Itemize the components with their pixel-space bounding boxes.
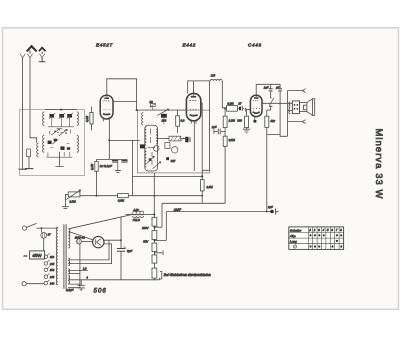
svg-text:Minerva 33 W: Minerva 33 W [374,128,385,199]
potentiometer 0,5M volume [66,190,80,203]
power transformer primary bumps [56,227,58,285]
divider chain spine [153,214,155,279]
tube V3 mid marks [253,108,260,109]
svg-text:6T: 6T [48,233,51,237]
resistor 0,3M vertical [176,110,180,133]
svg-text:0,3M: 0,3M [227,102,234,106]
IF pre coil bumps upper [142,113,144,125]
rectifier filament winding bumps [68,258,69,266]
speaker cone flange [313,99,315,116]
capacitor 8uF electrolytic [117,246,132,253]
tube V2 cathode bar [190,114,198,117]
wire into tube V3 grid [246,109,250,111]
tube V3 grid dashes [253,100,259,102]
filament winding bumps 3 [68,275,69,280]
wire tube V2 bottom lead [193,121,195,171]
filament winding bumps 2 [68,269,69,274]
mains terminal bottom [22,282,26,286]
padder capacitor black mark 1 [48,141,52,144]
svg-text:0,5µF: 0,5µF [66,288,74,292]
table header letters [309,228,342,232]
mains switch blade [27,223,37,227]
switch arrow tone [269,91,274,106]
resistor 0,3M horizontal [227,102,238,112]
svg-text:Lang: Lang [290,240,297,244]
output transformer bumps [289,102,290,114]
node on volume line [96,195,98,197]
tube V3 bottom pin [254,117,256,120]
antenna terminal 2 [27,51,32,59]
svg-text:AMF: AMF [173,208,182,212]
capacitor diode black [185,137,188,143]
trimmer capacitor T2 [59,113,65,127]
svg-text:27: 27 [237,102,242,106]
svg-text:0,5M: 0,5M [70,199,77,203]
oscillator switch contact circle a [153,146,159,152]
rf choke bumps 105 [210,79,222,81]
tube V1 E452T envelope [100,95,113,119]
svg-text:FELD: FELD [133,218,140,222]
trimmer 50 above grid line [150,103,156,110]
rectifier filament loop wires [68,240,111,263]
tube V1 bottom pins [103,117,109,121]
svg-text:0,5M: 0,5M [118,199,125,203]
svg-text:220: 220 [161,118,167,122]
node 100V [154,226,156,228]
wire field coil to chain [144,213,155,215]
speaker top terminal line with fork [288,89,306,93]
mains terminal top [23,226,27,230]
IF1 primary coil bumps [145,127,147,146]
svg-text:220: 220 [49,275,55,279]
svg-text:0,5M: 0,5M [207,185,214,189]
svg-text:687: 687 [171,159,176,163]
wire bus L2 y177.7 [133,175,203,177]
switch arrow on grid line [157,109,169,115]
svg-text:200: 200 [236,119,242,123]
transformer core lines [64,224,66,289]
speaker chassis vertical [287,91,289,137]
rectifier tube circle [93,236,104,247]
svg-text:0,3: 0,3 [181,119,185,123]
wire screen feed vertical [202,81,209,170]
capacitor 687 black dot [166,157,169,160]
capacitor 220 black [161,114,167,125]
svg-text:1µF: 1µF [212,125,217,129]
svg-text:8µF: 8µF [127,249,132,253]
tube V1 cathode bar [103,113,110,116]
table row label symbol [293,245,296,248]
node dots inside tuner [54,130,56,132]
resistor 1,5M [223,109,235,132]
svg-text:2µF: 2µF [267,205,273,209]
wire junction to IF block [109,139,140,141]
wire tube V3 top cap riser [256,84,280,97]
svg-text:45W: 45W [32,253,42,258]
dial lamp [76,239,81,244]
wire AMF bus [166,211,271,213]
svg-text:40k: 40k [270,119,275,123]
tube V1 grid dashes [103,100,109,102]
resistor 0,5M detector load [200,180,213,204]
resistor chain R4 [152,255,157,263]
IF1 inner texture [148,129,156,166]
earth terminal fork [40,52,45,59]
resistor chain R1 [152,217,157,226]
tube V3 cathode cap black [254,120,257,123]
tube V3 cathode arc [253,112,260,114]
tube V2 E442 envelope [186,93,200,120]
svg-text:2x 0,1µF: 2x 0,1µF [99,164,113,168]
wire drop to volume line [132,140,134,195]
switch table grid [289,227,344,250]
svg-text:E452T: E452T [96,43,114,48]
voltage tap 150 [44,266,55,272]
svg-text:125: 125 [50,262,55,266]
antenna arrow symbol [26,45,37,52]
capacitor 2uF left drop [263,84,273,91]
svg-text:E442: E442 [183,43,197,48]
wire 8uF down to heater bus [120,251,122,279]
earth arrow symbol [39,47,46,52]
band switch arrow S1b [59,129,68,136]
oscillator padder rect [165,143,170,149]
tube V1 mid dots [104,109,111,111]
resistor 40k [265,116,276,127]
IF transformer 1 can [145,125,158,171]
wire tuner top rail [45,109,77,111]
tuner inner texture marks [46,129,72,157]
wire antenna lead 1 [22,58,24,169]
wire pot to ground [62,194,69,208]
filament stub 1,2 [68,268,87,271]
voltage tap 110 [44,253,54,259]
voltage tap 125 [44,260,55,266]
node at 1,5M top [224,108,226,110]
heater bus wire [68,278,159,280]
coupling capacitor 27 black [237,102,244,111]
filament winding bumps 4 [68,281,69,284]
shield box of tuner [20,110,85,176]
capacitor in antenna branch [27,149,31,157]
speaker cone [307,99,313,115]
trimmer black on IF1 [140,144,145,148]
tube V2 mid dashes [190,108,197,110]
svg-text:Bei Gleichstrom durchverbinden: Bei Gleichstrom durchverbinden [164,273,211,277]
wire stubs into transformer [288,103,293,110]
HT secondary bumps [68,229,70,248]
speaker magnet block [300,103,307,112]
resistor 200 [236,110,248,128]
wire tube V3 anode lead [262,102,288,104]
svg-text:100V: 100V [142,226,150,230]
tube V2 bottom pins [191,121,196,124]
wire lamp down lead [68,244,80,288]
resistor chain R3 [152,243,157,252]
filament stub 4 [68,274,88,280]
node tuner top [60,109,62,111]
svg-text:150: 150 [50,268,55,272]
transformer winding dots [294,104,299,110]
svg-text:1,2: 1,2 [83,268,87,271]
wire switch to 40k [267,106,271,116]
svg-text:105: 105 [211,74,216,78]
wire antenna lead 2 [30,58,37,143]
oscillator switch arrow b [153,162,161,169]
svg-text:0,1M: 0,1M [90,163,94,170]
wire tuner inner lead [56,152,64,167]
tube V2 top cap [191,96,196,98]
table dots row 4 [309,245,342,247]
wire divider tap risers [154,203,166,240]
resistor 0,5M vertical mid [223,132,235,147]
coil L3 left lower bumps [43,135,45,152]
wire tube V1 anode lead [113,100,137,102]
svg-text:µF: µF [276,86,280,90]
ground bar inside tuner [25,168,34,170]
wire tube V2 top cap riser [188,81,211,96]
ground bar antenna 1 [19,168,28,170]
wire antenna coil to ground [28,157,30,168]
resistor 0,1M upper (grid leak) [90,107,93,131]
tube V3 top cap [254,97,259,99]
padder capacitor black mark 2 [60,146,64,150]
capacitor 2uF right drop [276,84,282,91]
band switch arrow S1c [52,139,58,144]
svg-text:240: 240 [49,282,55,286]
wire core coil to diode cap [181,138,185,140]
svg-text:0,1M: 0,1M [85,115,89,122]
wire tube1 cathode down [108,120,110,160]
power rating box 45W [24,251,45,260]
capacitor diode bar [189,137,191,142]
field coil 4,5k FELD [133,208,144,222]
output transformer box [292,101,299,114]
node HT plus [120,239,122,241]
bridge bracket [160,271,162,279]
wire volume line y195.7 [80,195,202,197]
wire tuner mid rail [48,126,74,128]
wire tube V1 top cap riser [107,79,137,110]
capacitor 0,5uF [66,280,85,292]
wire HT plus to 8uF node [109,217,121,248]
oscillator switch arrow a [147,156,155,163]
antenna coupling coil bumps [37,143,39,157]
capacitor 2uF at AMF end [267,205,279,215]
iron core coil hatched [158,136,184,141]
svg-text:1120 od.: 1120 od. [75,236,86,240]
node mains [41,227,43,229]
svg-text:506: 506 [94,288,107,295]
ground bars under 200 [243,128,250,133]
wire chain top vertical [153,173,155,217]
coil L2 right bumps [77,112,79,126]
node detector line on volume line [201,195,203,197]
node on L2 [201,175,203,177]
node chain top [153,213,155,215]
grid stopper bar tube V3 [245,108,247,112]
wire 0,5M down to AMF bus [224,146,226,203]
svg-text:4,5k: 4,5k [133,208,139,212]
capacitor 2x 0,1uF pair [97,159,128,172]
svg-text:Schalter: Schalter [290,228,302,232]
node 55V [154,240,156,242]
svg-text:Allg.: Allg. [289,234,296,238]
speaker bottom terminal line with fork [288,120,306,124]
trimmer capacitor T3 [67,113,73,127]
wire choke down lead [222,81,226,108]
svg-text:0,5M: 0,5M [229,138,236,142]
wire 40k down to AMF bus [267,127,280,211]
IF1 right coil bumps [156,129,158,144]
resistor chain R5 [152,268,157,278]
resistor 0,1M lower (AVC) [95,159,98,195]
svg-text:110: 110 [50,255,55,259]
svg-text:C443: C443 [248,43,262,48]
wire rectifier to field coil [126,213,133,215]
wire mains bottom [26,283,44,285]
table dots row 3 [336,240,338,242]
oscillator shield box [138,110,210,173]
capacitor 1uF [212,125,225,134]
earth stub and bar [39,58,46,62]
wire mains top [37,227,58,229]
coil L4 right lower bumps [77,135,79,152]
band switch arrow S1a [51,129,60,136]
oscillator switch contact circle b [172,147,178,153]
wire bus L3 y202.5 [162,202,225,204]
coil L1 left bumps [43,112,45,126]
tube V1 top cap [104,98,109,100]
table dots row 2 [309,234,342,236]
node 40k drop on AMF bus [266,211,268,213]
fuse lamp 6T [41,228,51,251]
node cathode junction [108,139,110,141]
resistor 0,5M series [118,194,129,203]
svg-text:2µF: 2µF [263,86,269,90]
capacitor stub at R3 bottom [154,251,163,256]
tube V3 C443 envelope [250,95,262,116]
wire right drop down [280,91,287,136]
voltage tap 240 [44,280,55,286]
trimmer capacitor T1 [49,113,55,127]
resistor chain R2 [152,231,157,240]
wire HT diagonal to field coil [69,214,133,228]
node chain riser on volume line [153,195,155,197]
node IF input junction [136,109,138,111]
svg-text:50: 50 [150,100,154,104]
wire diagonal to lamp [69,232,93,240]
wire tube V2 anode to detector [201,103,202,180]
antenna terminal 1 [20,54,25,58]
tube V2 grid dashes [190,100,197,102]
wire grid line to tube V2 [137,109,187,111]
IF1 secondary coil bumps [145,148,147,167]
wire lamp to rectifier [82,240,93,242]
rectifier internals [96,239,101,246]
speaker magnet C pole [304,105,307,110]
svg-text:1,5M: 1,5M [229,119,236,123]
voltage tap 220 [44,273,55,279]
